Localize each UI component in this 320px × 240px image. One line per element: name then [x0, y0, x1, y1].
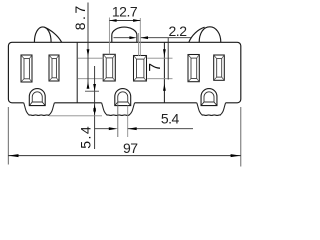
dimension 12.7 line: [109, 20, 140, 22]
slot outlet2 right: [134, 56, 147, 82]
slot outlet1 left: [21, 55, 32, 82]
dimension 7 line: [167, 38, 169, 80]
slot outlet3 left: [188, 55, 199, 82]
bottom tab outlet 1: [24, 103, 55, 116]
module boundary line between outlet2 and outlet3: [163, 42, 165, 103]
module boundary line between outlet1 and outlet2: [76, 42, 78, 103]
ground hole outlet 1: [29, 89, 45, 106]
extension line ground-hole top (5.4 vertical): [85, 90, 99, 92]
svg-text:5.4: 5.4: [77, 125, 93, 149]
dimension 2.2 lines: [114, 37, 192, 39]
extension lines slot top/bottom (for 8.7 and 7 dims): [78, 58, 173, 79]
slot outlet1 right: [49, 55, 59, 81]
dimension 8.7 line: [87, 3, 89, 89]
bottom tab outlet 3: [197, 103, 226, 116]
ground hole outlet 2: [115, 89, 131, 106]
dimension 97 overall width: [8, 107, 241, 167]
svg-text:5.4: 5.4: [161, 111, 180, 127]
ground hole outlet 3: [201, 89, 217, 106]
slot outlet3 right: [214, 55, 225, 80]
mounting hump outlet 1: [34, 27, 61, 42]
bottom tab outlet 2: [102, 103, 135, 116]
svg-text:2.2: 2.2: [169, 23, 188, 39]
svg-text:8.7: 8.7: [72, 3, 88, 30]
dimension 5.4 vertical (tab depth): [94, 66, 96, 149]
slot outlet2 left: [103, 54, 115, 81]
body outline: [8, 42, 240, 103]
dimension 5.4 horizontal (ground hole): [117, 100, 119, 137]
extension lines slot centers (12.7 / 2.2): [109, 18, 140, 57]
svg-text:7: 7: [147, 63, 164, 72]
mounting hump outlet 3: [189, 27, 221, 43]
mounting hump outlet 2: [112, 27, 137, 42]
svg-text:12.7: 12.7: [112, 4, 138, 20]
svg-text:97: 97: [123, 140, 138, 156]
